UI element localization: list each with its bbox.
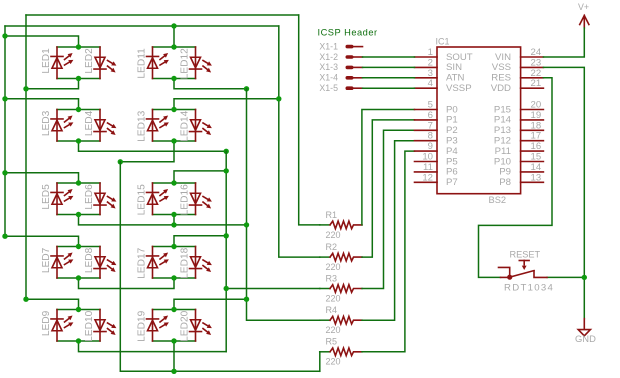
svg-text:P6: P6 — [446, 167, 458, 178]
svg-text:220: 220 — [326, 357, 341, 367]
svg-text:X1-2: X1-2 — [319, 52, 338, 62]
wire LED13/14 top to x=278.8 — [174, 99, 279, 110]
wire P2 pin7 to R3 right — [362, 130, 415, 288]
LED18 — [195, 247, 197, 279]
wire LED11/12 bottom down right — [174, 79, 247, 89]
wire V+ to VIN pin24 — [543, 28, 584, 57]
svg-text:P13: P13 — [494, 125, 511, 136]
LED11 — [152, 47, 154, 79]
junction x=246.5 y=299.2 — [244, 297, 249, 302]
junction x=226.2 y=288.5 — [224, 286, 229, 291]
LED6 — [99, 183, 101, 215]
wire vertical x=226.2 — [225, 151, 227, 351]
svg-text:LED9: LED9 — [41, 310, 52, 336]
LED5 — [56, 183, 58, 215]
svg-text:LED5: LED5 — [41, 184, 52, 210]
svg-text:V+: V+ — [578, 2, 589, 12]
junction corner at 26,299 — [23, 297, 28, 302]
svg-text:LED14: LED14 — [180, 110, 191, 141]
svg-text:RES: RES — [491, 73, 511, 84]
svg-text:23: 23 — [531, 57, 542, 68]
LED13 — [152, 110, 154, 142]
svg-text:P3: P3 — [446, 136, 458, 147]
svg-text:IC1: IC1 — [436, 37, 450, 47]
resistor R1 — [320, 221, 362, 229]
svg-text:220: 220 — [326, 325, 341, 335]
pin 2 SIN — [415, 66, 438, 68]
wire LED1/2 bottom to B — [26, 79, 79, 89]
wire A to LED5/6 top — [5, 173, 79, 183]
svg-text:24: 24 — [531, 47, 542, 58]
svg-text:P1: P1 — [446, 115, 458, 126]
pin 1 SOUT — [415, 56, 438, 58]
pin 9 P4 — [415, 150, 438, 152]
LED10 — [99, 310, 101, 342]
svg-text:LED7: LED7 — [41, 247, 52, 273]
wire vertical A left x=5 — [4, 26, 6, 236]
wire net T1 top horizontal — [26, 14, 299, 16]
svg-text:17: 17 — [531, 131, 542, 142]
svg-text:P2: P2 — [446, 125, 458, 136]
pin 22 RES — [521, 77, 544, 79]
wire net T2 top horizontal y=26 — [5, 25, 279, 27]
LED12 — [195, 47, 197, 79]
wire T2 vertical x=278.8 down to R2 — [279, 26, 320, 257]
IC1 BS2 — [437, 47, 521, 194]
svg-text:R4: R4 — [326, 305, 338, 315]
svg-text:RESET: RESET — [510, 250, 541, 260]
wire LED15/16 bottom to y=224.9 — [173, 214, 175, 225]
junction A y=172.8 — [2, 170, 7, 175]
svg-text:BS2: BS2 — [489, 195, 507, 205]
svg-text:P5: P5 — [446, 156, 458, 167]
junction x=120.3 y=161.8 — [118, 159, 123, 164]
svg-text:LED20: LED20 — [180, 310, 191, 341]
pin 13 P8 — [521, 181, 544, 183]
svg-text:LED15: LED15 — [137, 184, 148, 215]
wire LED3/4 bottom to x=226.2 — [79, 141, 227, 151]
wire x=226.2 branch to R3 — [226, 288, 320, 290]
svg-text:LED6: LED6 — [84, 184, 95, 210]
svg-text:15: 15 — [531, 152, 542, 163]
svg-text:LED2: LED2 — [84, 48, 95, 74]
wire reset switch right to GND rail — [547, 276, 584, 278]
LED8 — [99, 247, 101, 279]
junction on B at y=88.8 — [23, 86, 28, 91]
junction A y=236.2 — [2, 234, 7, 239]
junction x=246.5 y=88.8 — [244, 86, 249, 91]
svg-text:LED1: LED1 — [41, 48, 52, 74]
pin 24 VIN — [521, 56, 544, 58]
svg-text:ATN: ATN — [446, 73, 465, 84]
svg-text:P0: P0 — [446, 104, 458, 115]
svg-text:LED16: LED16 — [180, 184, 191, 215]
LED cell rails row3 col2 — [153, 183, 196, 215]
wire T2 branch to LED11/12 top — [173, 26, 175, 47]
junction x=174 y=224.9 — [171, 222, 176, 227]
wire LED9/10 bottom to x=226.2 — [79, 341, 227, 352]
LED14 — [195, 110, 197, 142]
svg-text:LED13: LED13 — [137, 110, 148, 141]
svg-text:VSSP: VSSP — [446, 83, 472, 94]
svg-text:18: 18 — [531, 120, 542, 131]
wire A to LED7/8 top — [5, 236, 79, 246]
svg-text:LED3: LED3 — [41, 110, 52, 136]
svg-text:LED8: LED8 — [84, 247, 95, 273]
svg-text:LED18: LED18 — [180, 247, 191, 278]
pin 11 P6 — [415, 171, 438, 173]
wire LED13/14 bottom to x=120.3 — [120, 141, 174, 162]
pin 18 P13 — [521, 129, 544, 131]
svg-text:10: 10 — [422, 152, 433, 163]
junction x=226.2 y=151.3 — [224, 149, 229, 154]
svg-text:20: 20 — [531, 100, 542, 111]
pin 19 P14 — [521, 119, 544, 121]
pin 20 P15 — [521, 109, 544, 111]
wire P3 pin8 to R4 right — [362, 141, 415, 321]
svg-text:LED17: LED17 — [137, 247, 148, 278]
svg-text:P12: P12 — [494, 136, 511, 147]
LED cell rails row2 col2 — [153, 110, 196, 142]
wire B corner to LED9/10 top — [26, 299, 79, 309]
svg-text:LED12: LED12 — [180, 48, 191, 79]
pin 4 VSSP — [415, 87, 438, 89]
LED19 — [152, 310, 154, 342]
svg-text:14: 14 — [531, 162, 542, 173]
svg-text:GND: GND — [575, 333, 596, 344]
pin 21 VDD — [521, 87, 544, 89]
svg-text:X1-4: X1-4 — [319, 73, 338, 83]
wire RES pin22 to reset switch — [479, 78, 553, 278]
header pin X1-2 — [346, 55, 354, 59]
wire X1-4 to pin3 — [363, 77, 415, 79]
LED7 — [56, 247, 58, 279]
LED17 — [152, 247, 154, 279]
svg-text:9: 9 — [428, 141, 433, 152]
header pin X1-3 — [346, 66, 354, 70]
ground GND — [583, 319, 585, 330]
junction x=278.8 y=98.8 — [276, 96, 281, 101]
LED cell rails row5 col2 — [153, 310, 196, 342]
LED2 — [99, 47, 101, 79]
svg-text:LED11: LED11 — [137, 48, 148, 79]
junction x=226.2 y=170.9 — [224, 168, 229, 173]
wire VSS pin23 to GND rail — [543, 67, 584, 318]
junction T2 x=174 — [171, 23, 176, 28]
svg-text:X1-1: X1-1 — [319, 41, 338, 51]
svg-text:P10: P10 — [494, 156, 511, 167]
wire vertical x=120.3 down — [120, 162, 319, 371]
svg-text:ICSP Header: ICSP Header — [318, 28, 378, 38]
junction A y=36 — [2, 33, 7, 38]
svg-text:P11: P11 — [495, 146, 511, 157]
pin 7 P2 — [415, 129, 438, 131]
svg-text:220: 220 — [326, 294, 341, 304]
resistor R4 — [320, 316, 362, 324]
wire T1 vertical x=298.7 down to R1 — [299, 15, 320, 225]
svg-text:16: 16 — [531, 141, 542, 152]
svg-text:VSS: VSS — [492, 62, 511, 73]
wire P0 pin5 to R1 right — [362, 110, 415, 225]
LED20 — [195, 310, 197, 342]
svg-text:SIN: SIN — [446, 62, 462, 73]
wire LED15/16 top to x=226.2 — [174, 171, 226, 183]
svg-text:P7: P7 — [446, 177, 458, 188]
junction x=226.2 y=235.8 — [224, 233, 229, 238]
svg-text:220: 220 — [326, 262, 341, 272]
resistor R2 — [320, 253, 362, 261]
header pin X1-4 — [346, 76, 354, 80]
svg-text:R2: R2 — [326, 242, 338, 252]
wire LED19/20 top to x=246.5 — [174, 299, 247, 309]
pin 14 P9 — [521, 171, 544, 173]
svg-text:X1-5: X1-5 — [319, 83, 338, 93]
wire X1-3 to pin2 — [363, 66, 415, 68]
svg-text:RDT1034: RDT1034 — [504, 283, 554, 294]
svg-text:19: 19 — [531, 110, 542, 121]
svg-text:P15: P15 — [494, 104, 511, 115]
svg-text:1: 1 — [428, 47, 433, 58]
svg-text:5: 5 — [428, 100, 433, 111]
svg-text:P8: P8 — [499, 177, 511, 188]
wire R5 left terminal down — [319, 352, 321, 372]
svg-text:P9: P9 — [499, 167, 511, 178]
svg-text:220: 220 — [326, 230, 341, 240]
LED cell rails row2 col1 — [57, 110, 100, 142]
LED15 — [152, 183, 154, 215]
wire LED17/18 top to x=226.2 — [174, 236, 226, 247]
junction GND rail y=277.4 — [582, 275, 587, 280]
svg-text:13: 13 — [531, 172, 542, 183]
svg-text:VDD: VDD — [491, 83, 511, 94]
svg-text:R5: R5 — [326, 337, 338, 347]
LED cell rails row5 col1 — [57, 310, 100, 342]
svg-text:LED4: LED4 — [84, 110, 95, 136]
pin 15 P10 — [521, 161, 544, 163]
LED cell rails row3 col1 — [57, 183, 100, 215]
pin 10 P5 — [415, 161, 438, 163]
svg-text:7: 7 — [428, 120, 433, 131]
LED16 — [195, 183, 197, 215]
svg-text:R1: R1 — [326, 210, 338, 220]
svg-text:22: 22 — [531, 68, 542, 79]
wire vertical B left x=26 — [25, 15, 27, 299]
svg-text:P4: P4 — [446, 146, 458, 157]
svg-text:21: 21 — [531, 78, 542, 89]
svg-text:6: 6 — [428, 110, 433, 121]
junction x=174 y=371.3 — [171, 369, 176, 374]
header pin X1-5 — [346, 86, 354, 90]
svg-text:X1-3: X1-3 — [319, 62, 338, 72]
wire LED5/6 bottom row wire y=224.9 — [79, 215, 247, 225]
LED cell rails row4 col1 — [57, 247, 100, 279]
svg-text:LED19: LED19 — [137, 310, 148, 341]
svg-text:11: 11 — [423, 162, 433, 173]
svg-text:P14: P14 — [494, 115, 512, 126]
svg-text:3: 3 — [428, 68, 433, 79]
wire vertical x=246.5 down to R4 — [247, 89, 320, 320]
LED cell rails row4 col2 — [153, 247, 196, 279]
wire LED19/20 bottom to y=371.3 — [173, 341, 175, 371]
resistor R3 — [320, 285, 362, 293]
pin 12 P7 — [415, 181, 438, 183]
svg-text:2: 2 — [428, 57, 433, 68]
svg-text:R3: R3 — [326, 274, 338, 284]
pin 17 P12 — [521, 140, 544, 142]
svg-text:VIN: VIN — [495, 52, 511, 63]
svg-text:12: 12 — [422, 172, 433, 183]
pin 16 P11 — [521, 150, 544, 152]
svg-text:LED10: LED10 — [84, 310, 95, 341]
wire X1-2 to pin1 — [363, 56, 415, 58]
header pin X1-1 — [346, 45, 354, 49]
svg-text:4: 4 — [428, 78, 434, 89]
wire P4 pin9 to R5 right — [362, 151, 415, 352]
LED4 — [99, 110, 101, 142]
svg-text:SOUT: SOUT — [446, 52, 473, 63]
LED cell rails row1 col2 — [153, 47, 196, 79]
resistor R5 — [320, 348, 362, 356]
junction x=246.5 y=224.9 — [244, 222, 249, 227]
wire P1 pin6 to R2 right — [362, 120, 415, 257]
wire A to LED3/4 top — [5, 99, 79, 110]
pin 3 ATN — [415, 77, 438, 79]
LED cell rails row1 col1 — [57, 47, 100, 79]
LED3 — [56, 110, 58, 142]
wire A to LED1/2 top — [5, 36, 79, 47]
svg-text:8: 8 — [428, 131, 433, 142]
pin 6 P1 — [415, 119, 438, 121]
wire X1-5 to pin4 — [363, 87, 415, 89]
junction A y=98.8 — [2, 96, 7, 101]
pin 5 P0 — [415, 109, 438, 111]
pin 8 P3 — [415, 140, 438, 142]
wire net P LED7/8 bottom to LED17/18 bottom — [79, 278, 175, 289]
LED1 — [56, 47, 58, 79]
pin 23 VSS — [521, 66, 544, 68]
LED9 — [56, 310, 58, 342]
